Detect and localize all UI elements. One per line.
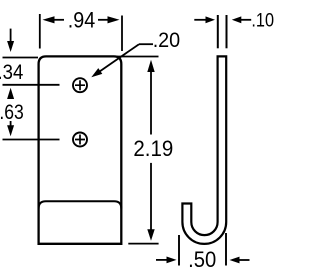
dim .94 left arrow: [53, 19, 64, 21]
svg-text:.10: .10: [251, 11, 274, 32]
dim .50 left extension line: [178, 235, 180, 266]
svg-text:.34: .34: [0, 61, 23, 84]
hole H1 circle: [73, 78, 87, 92]
dim .10 left extension line: [217, 15, 219, 48]
dim 2.19 top arrow: [147, 60, 154, 72]
hole H2 circle: [73, 133, 87, 147]
dim .50 right extension line: [225, 233, 227, 266]
J-hook profile (side view): [182, 56, 226, 244]
dim 2.19 bottom arrow: [150, 163, 152, 230]
dim .10 left arrow (points right): [194, 19, 206, 21]
dim .94 left extension line: [39, 14, 41, 49]
dim .34 top arrow: [10, 29, 12, 42]
svg-text:2.19: 2.19: [133, 136, 173, 161]
extension line 2.19 bottom: [128, 243, 158, 245]
dim .63 up arrow: [7, 88, 14, 99]
extension line plate top: [3, 57, 39, 59]
svg-text:.94: .94: [68, 7, 95, 32]
dim .63 down arrow: [10, 121, 12, 126]
plate outline (front view): [39, 56, 122, 243]
hole H2 crosshair: [75, 135, 85, 145]
extension line hole H1 center: [3, 84, 60, 86]
dim .10 right arrow (points left): [232, 16, 242, 23]
extension line hole H2 center: [3, 139, 60, 141]
leader .20 tail: [139, 43, 153, 45]
dim .94 right extension line: [121, 16, 123, 52]
dim .10 right extension line: [226, 15, 228, 48]
svg-text:.20: .20: [153, 27, 181, 52]
leader .20 arrow: [91, 68, 102, 77]
dim .50 right arrow (points left): [230, 257, 240, 264]
svg-text:.50: .50: [188, 247, 216, 272]
extension line 2.19 top: [111, 56, 159, 58]
bend tangent line: [39, 201, 122, 208]
dim .94 right arrow: [98, 19, 109, 21]
hole H1 crosshair: [75, 80, 85, 90]
svg-text:.63: .63: [0, 100, 24, 124]
dim .50 left arrow (points right): [156, 259, 167, 261]
